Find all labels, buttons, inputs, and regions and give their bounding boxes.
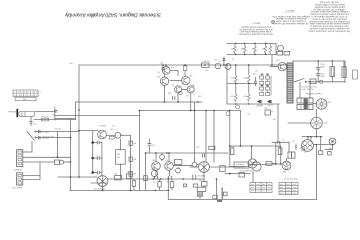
relay contact boxes [288, 152, 292, 158]
wire: bar to cluster verticals [288, 142, 290, 152]
mid ladder resistors row1 [235, 74, 238, 84]
socket wheel J [311, 117, 323, 129]
edge connector bar [287, 63, 293, 103]
transistor Q2 [162, 67, 170, 75]
wire: vertical x54.8 [54, 108, 56, 121]
note block B (rotated 180) [272, 9, 311, 25]
svg-text:C10: C10 [152, 144, 155, 147]
svg-text:Q8: Q8 [152, 159, 155, 162]
wire: Q1 top wire [79, 130, 98, 132]
svg-text:220: 220 [252, 48, 255, 51]
psu resistor R21 [330, 67, 335, 77]
wire: x278 vertical to y142.3 [277, 104, 279, 142]
wire: x32 vertical from switch [31, 142, 33, 153]
wire: vertical x130.6 [130, 135, 132, 190]
cap C4 at x55.5 [54, 111, 57, 113]
rca jack J2 [55, 160, 60, 165]
wire: Q6 area [190, 166, 199, 168]
svg-text:PART OF R30: PART OF R30 [302, 88, 314, 91]
small boxes right of ladder [277, 52, 283, 56]
cap C14 under rail [162, 68, 165, 70]
dense diode block [260, 74, 272, 96]
svg-text:R2 1M: R2 1M [55, 128, 61, 131]
output transistors Q11 Q12 [248, 159, 257, 168]
connector L circle [329, 138, 336, 145]
wire: switch wire y131.5 [36, 131, 79, 133]
wire: vertical x139.5 [139, 111, 141, 191]
pilot lamp [353, 70, 358, 79]
svg-text:.1: .1 [95, 154, 97, 157]
wire: upper cluster verticals [165, 65, 167, 67]
svg-text:Voltages may vary plus or minu: Voltages may vary plus or minus 10%. [272, 15, 311, 18]
resistor R7 [129, 172, 132, 177]
electrolytic C7 [179, 91, 182, 94]
svg-text:TAPE IN: TAPE IN [14, 169, 22, 172]
svg-text:C22: C22 [264, 107, 267, 110]
legend table top-left [13, 90, 38, 101]
svg-text:EXT SPKR: EXT SPKR [12, 187, 23, 190]
wire: J down [316, 129, 318, 137]
wire: x227 vertical [226, 65, 228, 104]
svg-text:.1: .1 [95, 168, 97, 171]
left small parts near G [295, 144, 297, 151]
wire: vertical x145.5 [145, 153, 147, 190]
wire: B+ top rail y65 [79, 64, 287, 66]
transistor Q8 [152, 162, 161, 171]
capacitor C2 [39, 130, 41, 133]
resistor R19 right [278, 148, 282, 155]
wire: H to wheel I [313, 103, 316, 105]
psu interlock box [310, 79, 316, 84]
resistors to bottom rail [158, 182, 161, 188]
svg-text:R19: R19 [277, 145, 280, 148]
svg-text:ground shown on this diagram.: ground shown on this diagram. [240, 25, 271, 28]
cap C16 on rail [225, 64, 231, 70]
psu rectifier box [342, 67, 346, 78]
svg-text:Q9: Q9 [166, 159, 169, 162]
svg-text:R14: R14 [199, 179, 202, 182]
jack J1 bar (dark) [16, 109, 18, 117]
comp at y173.6 [239, 173, 245, 178]
wire: y177 to Q7 [58, 176, 97, 178]
resistor mid box between x206 x214 [209, 146, 215, 149]
wire: x316.4 junction to K [315, 145, 317, 156]
connector P1 block [17, 150, 23, 167]
cap C17 x223.9 [222, 59, 225, 61]
svg-text:R8: R8 [115, 173, 117, 176]
svg-text:R10: R10 [198, 95, 201, 98]
svg-text:Q5: Q5 [172, 84, 175, 87]
resistor at x145.5 [144, 176, 148, 181]
ground symbol glyph in note B [271, 20, 274, 23]
ladder stubs [236, 65, 249, 92]
wire: wire y118.5 to x79 [55, 118, 76, 120]
wire: vertical x92.7 [92, 131, 94, 173]
svg-text:C8: C8 [186, 95, 188, 98]
svg-text:C13: C13 [196, 146, 199, 149]
svg-text:R25: R25 [231, 77, 234, 80]
diode D1 pair dark [258, 100, 262, 103]
table T1 [250, 183, 272, 193]
svg-text:R28: R28 [244, 95, 247, 98]
wire: R2 transistor wires [270, 66, 278, 68]
svg-text:.05: .05 [157, 71, 160, 74]
wire: caps row to x101.9 [93, 142, 97, 144]
svg-text:R1 47K: R1 47K [42, 116, 50, 119]
resistor R6 [129, 157, 132, 161]
transistor Q5 [175, 86, 182, 93]
wire: y164 right [266, 163, 281, 165]
caps left of Q10 [193, 175, 196, 181]
wire: psu to connector H [299, 82, 301, 98]
jack J1 plug body [19, 112, 35, 117]
cap C9 [151, 170, 157, 176]
resistor R3 [109, 137, 114, 139]
wire: right vertical x316.4 [315, 155, 317, 199]
svg-text:R18: R18 [231, 145, 234, 148]
svg-text:2000: 2000 [320, 65, 324, 68]
socket wheel I [316, 99, 327, 110]
wire: x223.9 stub [223, 57, 225, 65]
cap C12 [192, 162, 197, 167]
wire: Q1-P1 [107, 134, 116, 136]
wire: rail y179 [108, 178, 204, 180]
wire: left tall vertical x79 [78, 65, 80, 177]
cap C10 x149.3 [147, 139, 151, 154]
svg-text:R22 270: R22 270 [203, 60, 210, 63]
svg-text:C16 50: C16 50 [256, 105, 262, 108]
svg-text:150: 150 [205, 69, 208, 72]
resistor R14 box [201, 182, 207, 187]
svg-text:D5: D5 [253, 73, 255, 76]
svg-text:C3 .047: C3 .047 [42, 137, 50, 140]
wire: R-box stubs x120.4 [119, 139, 121, 150]
box right rect [328, 152, 332, 156]
svg-text:PHONO: PHONO [9, 110, 17, 113]
svg-text:NOTE 1: NOTE 1 [251, 21, 260, 24]
transistor Q1 [98, 130, 107, 139]
transistor Q3 [182, 76, 190, 84]
wire: wheel I to J [316, 110, 318, 118]
wire: rail y110.5 [140, 110, 241, 112]
svg-text:R3 220K: R3 220K [99, 125, 107, 128]
svg-text:560: 560 [117, 153, 120, 156]
transistor Q6 [187, 86, 194, 93]
psu cap C20 plates [316, 68, 320, 76]
box D output device [234, 162, 249, 168]
note block A (rotated 180) [308, 1, 351, 33]
resistor box on rail y65 [202, 63, 210, 67]
svg-text:1020304050607V: 1020304050607V [14, 94, 40, 97]
wire: input jack tip wire y111 [35, 111, 55, 113]
note block C (rotated 180) [238, 21, 274, 35]
wire: psu caps vertical [317, 61, 319, 68]
mid ladder resistors row2 [235, 92, 238, 102]
box K1 (relay) [116, 150, 126, 165]
svg-text:C1C2C3C4C5C6C7: C1C2C3C4C5C6C7 [14, 91, 42, 94]
svg-text:.01: .01 [55, 109, 58, 112]
resistor R11 box [174, 159, 182, 164]
wire: mid verticals x194.5 x206 x214 [194, 102, 196, 162]
wire: block2 wires [23, 175, 40, 177]
svg-text:.02: .02 [166, 180, 169, 183]
wire: top ladder rails [227, 43, 276, 45]
svg-text:47: 47 [194, 93, 196, 96]
svg-text:5W: 5W [117, 156, 120, 159]
wire: J left [288, 122, 311, 124]
wire: switch wire y137.5 [36, 137, 71, 139]
transistor QR2 [278, 62, 286, 70]
wire: output Q wires [229, 146, 231, 167]
svg-text:. . .: . . . [285, 177, 288, 179]
svg-text:Q7 2N2148: Q7 2N2148 [94, 187, 105, 190]
wire: Q7 bottom [102, 187, 104, 191]
switch SW1 input select [27, 132, 35, 141]
resistor R feed Q3 [183, 66, 187, 71]
connector cluster G [282, 161, 291, 170]
electrolytic caps on rail y110.5 [236, 105, 240, 109]
capacitor C3 [39, 136, 41, 139]
svg-text:Q6: Q6 [192, 84, 195, 87]
svg-text:Part No. 591-1432: Part No. 591-1432 [319, 1, 339, 4]
svg-text:2000: 2000 [320, 75, 324, 78]
svg-text:Q13: Q13 [276, 59, 280, 62]
resistor R1 box [41, 118, 48, 121]
resistor R5 [129, 141, 132, 145]
transistor Q10 driver [199, 162, 210, 173]
svg-text:NOTE 2: NOTE 2 [285, 9, 294, 12]
svg-text:Q11 2N2148: Q11 2N2148 [240, 170, 252, 173]
svg-text:C5: C5 [52, 114, 54, 117]
connector H row1 [297, 98, 313, 110]
wire: vertical x70.5 [70, 119, 72, 191]
wire: step x168.3 [167, 179, 169, 199]
psu fuse [319, 80, 323, 83]
wire: rail y146 [230, 145, 281, 147]
svg-text:C15: C15 [214, 59, 217, 62]
svg-text:F2: F2 [213, 194, 215, 197]
psu switch SW2 [294, 78, 305, 82]
resistor R8 box [115, 175, 122, 180]
svg-text:C9 50: C9 50 [151, 168, 156, 171]
wire: psu resistor verticals [331, 61, 333, 67]
wire: K drops [307, 137, 309, 140]
svg-text:BREAKER: BREAKER [236, 165, 246, 168]
svg-text:R9 1.5: R9 1.5 [127, 171, 133, 174]
wire: vertical x75.5 [75, 102, 77, 120]
svg-text:2N1305: 2N1305 [198, 175, 206, 178]
caps row x97-100 [97, 141, 99, 145]
crystal Y1 [265, 110, 271, 115]
cap on rail y153 [203, 154, 205, 158]
wire: rail y102 [76, 101, 203, 103]
box E [266, 162, 272, 166]
resistor on x232 [231, 148, 234, 155]
resistor R9 box [127, 174, 133, 179]
transistor Q4 [160, 77, 168, 85]
svg-text:Schematic Diagram, SA20 Amplif: Schematic Diagram, SA20 Amplifier Assemb… [65, 12, 161, 18]
svg-text:.1: .1 [95, 138, 97, 141]
cap C11 [176, 168, 181, 173]
transformer K cluster [301, 140, 314, 152]
svg-text:50: 50 [219, 60, 221, 63]
wire: x228 x240.4 [229, 111, 231, 147]
caps under Q8 Q9 [155, 176, 158, 179]
svg-text:C2 .047: C2 .047 [42, 131, 50, 134]
wire: rail y153 [146, 152, 229, 154]
svg-text:220: 220 [231, 48, 234, 51]
wire: bottom rail y198.9 [168, 198, 316, 200]
transistor QR1 [278, 45, 284, 51]
cap C18 [254, 77, 257, 86]
wire: ladder2 rails [227, 83, 257, 85]
svg-text:Y1: Y1 [271, 110, 273, 113]
wire: rail y65 cap stub x163 [162, 65, 164, 67]
capacitor C1 below jack [30, 117, 33, 126]
wire: bottom rail y190.4 [70, 189, 168, 191]
wire: vertical x57.4 [56, 132, 58, 158]
svg-text:.02: .02 [153, 180, 156, 183]
wire: right psu box [293, 61, 345, 82]
svg-text:+25: +25 [247, 113, 250, 116]
table T2 [279, 183, 298, 195]
transistor Q7 power [97, 176, 108, 187]
resistor R15 box [197, 187, 206, 191]
ticks on y142.3 [278, 141, 280, 144]
fuse dark post [221, 188, 224, 199]
wire: block1 pin wires [23, 151, 32, 153]
svg-text:C6: C6 [112, 125, 114, 128]
title: Schematic Diagram, SA20 Amplifier Assembly (rotated 180) [65, 12, 161, 18]
wire: y183 segment [91, 182, 107, 184]
svg-text:220: 220 [241, 48, 244, 51]
svg-text:F1: F1 [283, 139, 285, 142]
top ladder resistors [234, 44, 237, 54]
resistor box R16 vertical [220, 166, 225, 172]
wire: x272 stub [271, 55, 273, 66]
svg-text:POWER SUPPLY: POWER SUPPLY [306, 93, 323, 96]
svg-text:.02: .02 [255, 70, 258, 73]
coil box hatched [197, 192, 203, 196]
dark bridge block [304, 99, 308, 109]
svg-text:R27: R27 [231, 95, 234, 98]
wire: rail y115.5 [55, 115, 140, 117]
connector H row2 [297, 105, 313, 110]
box under x320.7 [319, 151, 323, 155]
svg-text:220: 220 [168, 92, 171, 95]
svg-text:x4: x4 [232, 58, 234, 61]
wire: K right y144.5 [314, 144, 331, 146]
pot P1 [115, 132, 121, 138]
connector P2 block [17, 173, 23, 185]
wire: vertical x216.4 [215, 179, 217, 199]
caps x172-176 [173, 96, 175, 99]
svg-text:220: 220 [262, 48, 265, 51]
transistor Q9 [165, 162, 174, 171]
svg-text:R26: R26 [244, 77, 247, 80]
wire: y136.7 [302, 136, 322, 138]
pot P2 bias [160, 155, 165, 160]
svg-text:D3 D4: D3 D4 [268, 104, 273, 107]
wire: ladder right vertical [275, 44, 277, 55]
cap C15 on rail [215, 63, 221, 69]
wire: input wire y119.5 [34, 119, 76, 121]
